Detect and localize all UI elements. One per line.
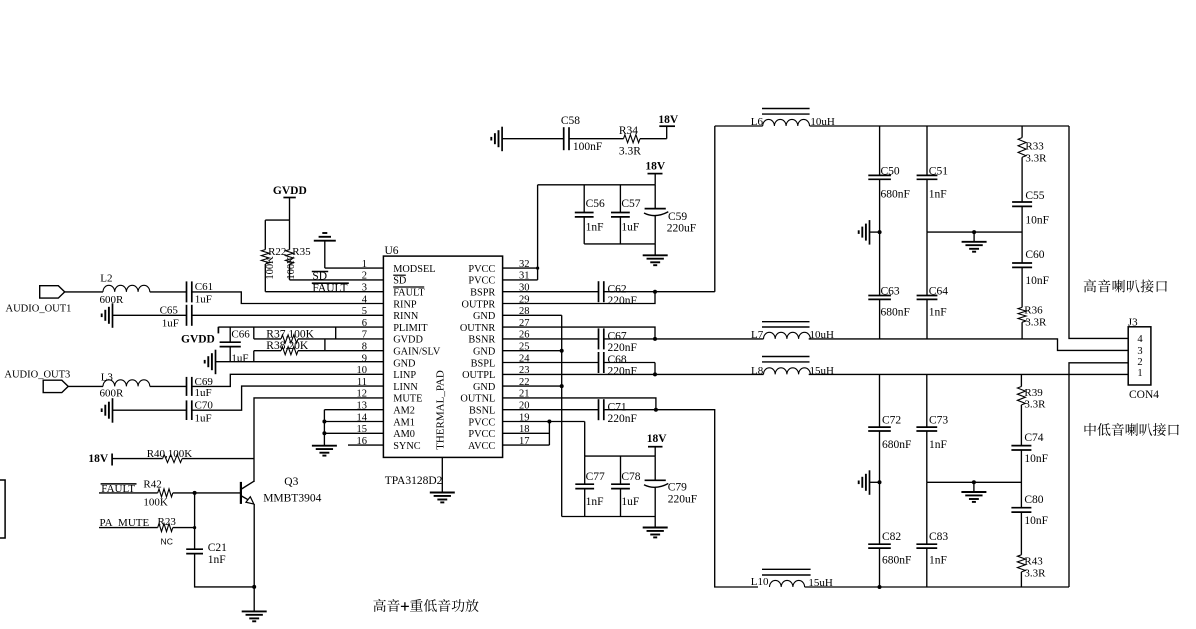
ground at AM pins bbox=[312, 445, 337, 456]
svg-text:R23: R23 bbox=[158, 516, 177, 528]
capacitor C83 1nF bbox=[916, 482, 948, 587]
wire GND pins chain bbox=[503, 315, 564, 516]
svg-text:C68: C68 bbox=[608, 354, 627, 366]
svg-text:10nF: 10nF bbox=[1025, 275, 1049, 287]
wire C68 jog to OUTPL bbox=[599, 363, 658, 377]
svg-text:C60: C60 bbox=[1025, 249, 1044, 261]
svg-text:220nF: 220nF bbox=[608, 413, 637, 425]
wire base node vertical bbox=[194, 493, 196, 549]
inductor L7 10uH bbox=[751, 322, 834, 342]
svg-text:R42: R42 bbox=[143, 479, 161, 491]
power 18V top bbox=[658, 114, 679, 126]
inductor L8 15uH bbox=[751, 357, 834, 377]
svg-text:GND: GND bbox=[473, 347, 496, 358]
wire C21 to emitter wire bbox=[195, 554, 257, 589]
svg-text:100K: 100K bbox=[286, 256, 297, 280]
capacitor C59 220uF bbox=[644, 185, 696, 244]
svg-text:4: 4 bbox=[1137, 334, 1143, 345]
svg-text:PVCC: PVCC bbox=[468, 429, 495, 440]
resistor R33 3.3R bbox=[1018, 126, 1047, 202]
svg-text:3: 3 bbox=[1137, 346, 1142, 357]
svg-text:THERMAL_PAD: THERMAL_PAD bbox=[435, 370, 447, 450]
net label SD bbox=[312, 270, 328, 282]
capacitor C79 220uF bbox=[644, 456, 697, 516]
inductor L10 15uH bbox=[751, 569, 833, 589]
wire C5x bottom rail bbox=[584, 243, 655, 245]
svg-text:C74: C74 bbox=[1024, 432, 1043, 444]
svg-text:1uF: 1uF bbox=[195, 387, 212, 399]
wire R35 to pin2 SD bbox=[290, 264, 384, 280]
svg-text:BSPR: BSPR bbox=[470, 288, 495, 299]
svg-text:9: 9 bbox=[362, 353, 367, 364]
wire pin12 MUTE to collector bbox=[254, 398, 383, 482]
wire pin6-pin7 tie bbox=[335, 327, 337, 339]
capacitor C67 220nF bbox=[599, 328, 637, 354]
power 18V lower bbox=[647, 433, 668, 456]
svg-text:L2: L2 bbox=[100, 273, 112, 285]
svg-text:1uF: 1uF bbox=[621, 222, 639, 234]
svg-text:1uF: 1uF bbox=[195, 294, 212, 306]
ground thermal pad bbox=[430, 493, 455, 503]
capacitor C73 1nF bbox=[916, 374, 948, 482]
wire pin30 BSPR to C62 bbox=[503, 291, 599, 293]
power GVDD left bbox=[181, 327, 218, 346]
svg-text:C72: C72 bbox=[882, 414, 901, 426]
svg-text:680nF: 680nF bbox=[882, 555, 911, 567]
svg-text:100K: 100K bbox=[143, 497, 168, 509]
svg-text:C66: C66 bbox=[231, 329, 250, 341]
svg-text:C51: C51 bbox=[929, 165, 948, 177]
ground lower mid bbox=[961, 482, 986, 502]
wire C71 to L10 bbox=[604, 408, 758, 587]
svg-text:R33: R33 bbox=[1025, 140, 1044, 152]
wire C65 to pin5 RINN bbox=[192, 314, 384, 316]
svg-text:C71: C71 bbox=[608, 401, 627, 413]
capacitor C63 680nF bbox=[868, 232, 910, 339]
svg-text:1nF: 1nF bbox=[929, 307, 947, 319]
svg-text:AUDIO_OUT1: AUDIO_OUT1 bbox=[6, 304, 72, 315]
svg-text:AVCC: AVCC bbox=[468, 441, 495, 452]
svg-text:GAIN/SLV: GAIN/SLV bbox=[393, 347, 441, 358]
wire C66 branch bbox=[229, 327, 231, 342]
U6 pin names bbox=[393, 264, 496, 452]
svg-text:1uF: 1uF bbox=[162, 317, 179, 329]
svg-text:C64: C64 bbox=[929, 285, 948, 297]
ground at C72 mid bbox=[859, 470, 882, 495]
capacitor C64 1nF bbox=[917, 232, 949, 339]
wire L6 down to J3 pin4 bbox=[1069, 126, 1128, 338]
svg-text:GVDD: GVDD bbox=[181, 333, 215, 345]
svg-text:GVDD: GVDD bbox=[393, 335, 423, 346]
svg-text:R39: R39 bbox=[1024, 387, 1043, 399]
wire pins13-15 to ground bbox=[322, 410, 383, 446]
wire thermal pad bbox=[441, 457, 443, 492]
svg-text:PVCC: PVCC bbox=[468, 264, 495, 275]
capacitor C61 1uF bbox=[187, 281, 214, 305]
resistor R43 3.3R bbox=[1017, 555, 1046, 587]
svg-text:OUTPL: OUTPL bbox=[462, 370, 495, 381]
svg-text:MODSEL: MODSEL bbox=[393, 264, 435, 275]
svg-text:R43: R43 bbox=[1024, 555, 1043, 567]
svg-text:1: 1 bbox=[1137, 368, 1142, 379]
resistor R38 20K bbox=[254, 340, 384, 355]
svg-text:FAULT: FAULT bbox=[393, 288, 425, 299]
net label FAULT bottom bbox=[101, 483, 137, 495]
connector J3 CON4 bbox=[1128, 316, 1159, 401]
svg-text:LINP: LINP bbox=[393, 370, 416, 381]
svg-text:C73: C73 bbox=[929, 414, 948, 426]
wire 18V rail bbox=[538, 184, 656, 186]
svg-text:220nF: 220nF bbox=[608, 342, 637, 354]
svg-text:MMBT3904: MMBT3904 bbox=[263, 492, 321, 504]
ground below C59 bbox=[643, 244, 668, 265]
svg-text:18V: 18V bbox=[647, 433, 668, 445]
wire C62 to junction bbox=[604, 290, 715, 294]
wire C58 left bbox=[502, 138, 564, 140]
svg-text:10nF: 10nF bbox=[1024, 515, 1048, 527]
wire pin27 OUTNR jog bbox=[503, 327, 655, 339]
svg-text:PVCC: PVCC bbox=[468, 276, 495, 287]
wire C65 left bbox=[113, 314, 187, 316]
capacitor C78 1uF bbox=[611, 456, 641, 516]
capacitor C77 1nF bbox=[575, 456, 605, 516]
svg-text:2: 2 bbox=[1137, 357, 1142, 368]
wire C70 to pin11 LINN bbox=[192, 386, 384, 410]
svg-text:600R: 600R bbox=[100, 387, 125, 399]
wire C58 to R34 bbox=[569, 138, 624, 140]
svg-text:C57: C57 bbox=[621, 198, 640, 210]
svg-text:R37,100K: R37,100K bbox=[266, 328, 314, 340]
svg-text:R34: R34 bbox=[619, 125, 638, 137]
svg-text:C63: C63 bbox=[881, 285, 900, 297]
resistor R36 3.3R bbox=[1018, 304, 1047, 339]
svg-text:AM0: AM0 bbox=[393, 429, 415, 440]
svg-text:220uF: 220uF bbox=[668, 493, 697, 505]
svg-text:C55: C55 bbox=[1025, 190, 1044, 202]
wire pin20 BSNL to C71 bbox=[503, 409, 599, 411]
svg-text:OUTPR: OUTPR bbox=[462, 299, 496, 310]
capacitor C82 680nF bbox=[868, 482, 911, 587]
svg-text:3.3R: 3.3R bbox=[1024, 399, 1046, 411]
svg-text:OUTNL: OUTNL bbox=[460, 394, 495, 405]
svg-text:C62: C62 bbox=[608, 283, 627, 295]
wire pin21 OUTNL jog bbox=[503, 398, 656, 410]
wire C70 left bbox=[113, 409, 187, 411]
wire OUTPR up to L6 bbox=[714, 126, 716, 292]
ground at C50 mid bbox=[859, 220, 882, 245]
svg-text:1uF: 1uF bbox=[231, 352, 248, 364]
svg-text:SD: SD bbox=[393, 276, 407, 287]
capacitor C51 1nF bbox=[917, 126, 949, 232]
svg-text:10nF: 10nF bbox=[1024, 453, 1048, 465]
wire AUDIO_OUT3 to L3 bbox=[68, 385, 103, 387]
svg-text:C79: C79 bbox=[668, 481, 687, 493]
label midbass speaker interface bbox=[1084, 423, 1179, 436]
svg-text:C56: C56 bbox=[586, 198, 605, 210]
inductor L6 10uH bbox=[751, 109, 835, 128]
svg-text:U6: U6 bbox=[385, 245, 399, 257]
wire rail to pins 32 31 PVCC bbox=[503, 185, 540, 280]
resistor R42 100K bbox=[143, 479, 172, 509]
wire pin6 to R37 bbox=[253, 327, 255, 339]
capacitor C68 220nF bbox=[599, 352, 637, 378]
svg-text:R38,20K: R38,20K bbox=[266, 340, 309, 352]
wire pin24 BSPL to C68 bbox=[503, 362, 599, 364]
svg-text:1uF: 1uF bbox=[621, 496, 639, 508]
capacitor C72 680nF bbox=[868, 374, 911, 482]
resistor R39 3.3R bbox=[1017, 374, 1046, 445]
svg-text:RINN: RINN bbox=[393, 311, 419, 322]
wire L10 line bbox=[805, 585, 1069, 589]
wire pin29 OUTPR jog bbox=[503, 292, 655, 304]
wire L7 to J3 pin3 bbox=[809, 339, 1128, 351]
svg-text:SYNC: SYNC bbox=[393, 441, 421, 452]
partial connector box left edge bbox=[0, 480, 5, 538]
svg-text:C82: C82 bbox=[882, 531, 901, 543]
svg-text:18V: 18V bbox=[658, 114, 679, 126]
resistor R35 100K bbox=[286, 246, 312, 280]
svg-text:1nF: 1nF bbox=[929, 555, 947, 567]
wire pins17 18 19 chain bbox=[503, 420, 585, 446]
svg-text:R22: R22 bbox=[268, 246, 286, 258]
wire emitter down bbox=[253, 504, 255, 587]
svg-text:LINN: LINN bbox=[393, 382, 418, 393]
wire lower mid rail bbox=[927, 480, 1022, 484]
svg-text:L3: L3 bbox=[101, 371, 114, 383]
svg-text:L10: L10 bbox=[751, 576, 769, 588]
svg-text:680nF: 680nF bbox=[881, 189, 910, 201]
svg-text:AUDIO_OUT3: AUDIO_OUT3 bbox=[4, 369, 70, 380]
wire pin23 OUTPL to L8 bbox=[503, 373, 764, 375]
svg-text:C58: C58 bbox=[561, 115, 580, 127]
capacitor C71 220nF bbox=[599, 399, 637, 425]
resistor R22 100K bbox=[261, 246, 286, 280]
svg-text:10nF: 10nF bbox=[1025, 214, 1049, 226]
wire C61 to pin4 RINP bbox=[192, 292, 384, 304]
wire R37-R38 tie bbox=[324, 339, 326, 351]
ground at C58 bbox=[491, 127, 502, 152]
capacitor C60 10nF bbox=[1012, 249, 1049, 307]
svg-text:OUTNR: OUTNR bbox=[460, 323, 496, 334]
svg-text:TPA3128D2: TPA3128D2 bbox=[385, 475, 443, 487]
wire pin26 BSNR to C67 bbox=[503, 338, 599, 340]
wire FAULT to R42 bbox=[99, 492, 158, 494]
svg-text:J3: J3 bbox=[1128, 316, 1138, 328]
capacitor C66 1uF bbox=[220, 329, 251, 365]
svg-text:GVDD: GVDD bbox=[273, 185, 307, 197]
U6 pin numbers bbox=[357, 259, 531, 447]
wire pin16 SYNC stub bbox=[348, 444, 383, 446]
svg-text:C83: C83 bbox=[929, 531, 948, 543]
capacitor C58 100nF bbox=[561, 115, 602, 153]
power 18V mid bbox=[645, 160, 666, 184]
svg-text:GND: GND bbox=[473, 311, 496, 322]
wire C69 to pin10 LINP bbox=[192, 374, 384, 386]
svg-text:1nF: 1nF bbox=[586, 222, 604, 234]
capacitor C69 1uF bbox=[187, 376, 214, 399]
wire L3 to C69 bbox=[150, 385, 187, 387]
svg-text:C65: C65 bbox=[160, 305, 179, 317]
svg-text:680nF: 680nF bbox=[881, 307, 910, 319]
wire L8 line to J3 pin1 bbox=[809, 373, 1128, 375]
wire 18V lower rail bbox=[585, 455, 656, 457]
svg-text:FAULT: FAULT bbox=[312, 282, 347, 294]
svg-text:L7: L7 bbox=[751, 329, 764, 341]
wire upper mid rail bbox=[927, 230, 1022, 234]
svg-text:Q3: Q3 bbox=[284, 476, 298, 488]
ground at C65 bbox=[102, 303, 113, 328]
wire PA_MUTE to R23 bbox=[99, 527, 158, 529]
svg-text:R40,100K: R40,100K bbox=[147, 448, 193, 460]
power GVDD top bbox=[273, 185, 307, 220]
svg-text:AM2: AM2 bbox=[393, 406, 415, 417]
svg-text:C21: C21 bbox=[208, 542, 227, 554]
svg-text:3.3R: 3.3R bbox=[619, 145, 641, 157]
svg-text:PLIMIT: PLIMIT bbox=[393, 323, 428, 334]
capacitor C21 1nF bbox=[186, 542, 227, 566]
resistor R40 100K bbox=[112, 448, 254, 463]
svg-text:680nF: 680nF bbox=[882, 439, 911, 451]
ground at C66 rail bbox=[205, 350, 216, 375]
ground below C79 bbox=[643, 517, 668, 538]
svg-text:C50: C50 bbox=[881, 165, 900, 177]
IC U6 TPA3128D2 body bbox=[383, 245, 502, 487]
svg-text:R35: R35 bbox=[292, 246, 311, 258]
capacitor C62 220nF bbox=[599, 281, 637, 307]
label tweeter speaker interface bbox=[1084, 279, 1167, 292]
svg-text:220nF: 220nF bbox=[608, 366, 637, 378]
capacitor C74 10nF bbox=[1011, 432, 1048, 508]
connector AUDIO_OUT1 bbox=[6, 286, 72, 315]
wire R42 to base bbox=[173, 491, 241, 495]
svg-text:C78: C78 bbox=[621, 471, 640, 483]
inductor L3 600R bbox=[100, 371, 150, 399]
svg-text:1nF: 1nF bbox=[586, 496, 604, 508]
svg-text:C77: C77 bbox=[586, 471, 605, 483]
wire L2 to C61 bbox=[150, 291, 187, 293]
net label FAULT bbox=[312, 282, 349, 294]
svg-text:C67: C67 bbox=[608, 331, 627, 343]
wire GVDD branch bbox=[265, 220, 289, 250]
ground above pin1 bbox=[314, 233, 336, 268]
transistor Q3 MMBT3904 bbox=[241, 476, 322, 505]
svg-text:3.3R: 3.3R bbox=[1025, 153, 1047, 165]
inductor L2 600R bbox=[100, 273, 150, 306]
svg-text:R36: R36 bbox=[1024, 304, 1043, 316]
svg-text:MUTE: MUTE bbox=[393, 394, 422, 405]
svg-text:AM1: AM1 bbox=[393, 417, 415, 428]
label amplifier title bbox=[373, 599, 478, 612]
wire R34 to 18V bbox=[640, 126, 667, 139]
ground upper mid bbox=[962, 232, 987, 252]
wire R22 to pin3 FAULT bbox=[265, 264, 383, 292]
svg-text:3.3R: 3.3R bbox=[1024, 568, 1046, 580]
wire L6 line bbox=[715, 125, 1069, 127]
svg-text:PVCC: PVCC bbox=[468, 417, 495, 428]
wire ground rail to pin9 GND bbox=[216, 361, 384, 363]
wire GVDD to pin6 PLIMIT bbox=[218, 326, 383, 328]
wire J3 pin2 down to L10 bbox=[1069, 363, 1128, 587]
svg-text:18V: 18V bbox=[645, 160, 666, 172]
wire R23 to C21 node bbox=[173, 526, 196, 529]
svg-text:L8: L8 bbox=[751, 365, 764, 377]
svg-text:3.3R: 3.3R bbox=[1025, 317, 1047, 329]
wire C67 to L7 bbox=[604, 337, 764, 341]
svg-text:GND: GND bbox=[393, 358, 416, 369]
wire pin19 down to rail bbox=[584, 422, 586, 457]
capacitor C80 10nF bbox=[1011, 494, 1048, 555]
resistor R37 100K bbox=[254, 328, 384, 343]
wire R38 to ground rail bbox=[253, 351, 255, 362]
svg-text:1nF: 1nF bbox=[208, 554, 226, 566]
svg-text:18V: 18V bbox=[88, 453, 109, 465]
svg-text:C80: C80 bbox=[1024, 494, 1043, 506]
capacitor C65 1uF bbox=[160, 305, 192, 330]
svg-text:BSNR: BSNR bbox=[468, 335, 495, 346]
svg-text:CON4: CON4 bbox=[1129, 389, 1159, 401]
svg-text:1nF: 1nF bbox=[929, 439, 947, 451]
resistor R23 NC bbox=[158, 516, 177, 546]
svg-text:100nF: 100nF bbox=[573, 141, 602, 153]
connector AUDIO_OUT3 bbox=[4, 369, 70, 392]
svg-text:BSPL: BSPL bbox=[471, 358, 496, 369]
capacitor C70 1uF bbox=[187, 400, 214, 425]
svg-text:220uF: 220uF bbox=[667, 223, 696, 235]
wire C66 to ground rail bbox=[229, 347, 231, 362]
svg-text:220nF: 220nF bbox=[608, 295, 637, 307]
svg-text:NC: NC bbox=[161, 536, 173, 546]
capacitor C50 680nF bbox=[868, 126, 910, 232]
svg-text:BSNL: BSNL bbox=[469, 406, 495, 417]
svg-text:GND: GND bbox=[473, 382, 496, 393]
power 18V at R40 bbox=[88, 453, 112, 465]
ground at Q3 emitter bbox=[242, 587, 267, 621]
capacitor C57 1uF bbox=[611, 185, 641, 244]
wire AUDIO_OUT1 to L2 bbox=[65, 291, 103, 293]
svg-text:100K: 100K bbox=[265, 256, 276, 280]
svg-text:1nF: 1nF bbox=[929, 189, 947, 201]
capacitor C56 1nF bbox=[575, 185, 605, 244]
svg-text:RINP: RINP bbox=[393, 299, 417, 310]
ground at C70 bbox=[102, 398, 113, 423]
svg-text:C59: C59 bbox=[668, 211, 687, 223]
svg-text:1uF: 1uF bbox=[195, 413, 212, 425]
net label PA_MUTE bbox=[100, 517, 150, 529]
capacitor C55 10nF bbox=[1012, 190, 1049, 263]
wire lower block bottom rail bbox=[562, 516, 656, 518]
resistor R34 3.3R bbox=[619, 125, 641, 157]
wire ground to pin1 MODSEL bbox=[325, 267, 384, 269]
